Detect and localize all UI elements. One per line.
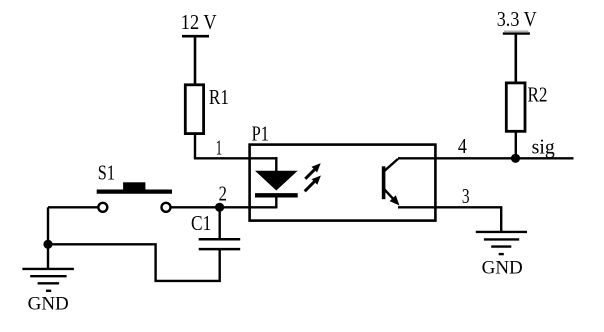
junction node 2	[215, 203, 224, 212]
phototransistor emitter	[385, 190, 400, 206]
svg-text:P1: P1	[252, 122, 269, 146]
phototransistor collector	[385, 159, 399, 171]
wire pin 3	[398, 207, 501, 232]
LED cathode bar	[255, 193, 298, 197]
svg-text:1: 1	[216, 135, 223, 159]
wire node2 to C1	[218, 207, 220, 239]
gray underline 3.3V	[504, 30, 528, 32]
svg-text:C1: C1	[191, 211, 211, 235]
svg-text:3.3 V: 3.3 V	[497, 7, 537, 31]
junction sig node	[511, 154, 520, 163]
wire pin 4 / sig net	[398, 157, 574, 159]
ground right	[476, 232, 527, 254]
power symbol 3.3V bar	[503, 32, 530, 34]
wire 12V to R1	[194, 36, 197, 86]
svg-text:sig: sig	[532, 134, 556, 158]
wire loop to C1 bottom	[48, 244, 220, 281]
svg-text:2: 2	[219, 182, 227, 206]
svg-text:12 V: 12 V	[181, 10, 217, 34]
wire switch to node 2	[171, 206, 277, 208]
light arrow upper	[305, 163, 320, 179]
wire left vertical to ground	[47, 207, 49, 269]
power symbol 12V bar	[182, 35, 209, 38]
wire left to switch	[48, 206, 98, 208]
switch S1 bar	[97, 190, 172, 194]
wire R2 to sig	[515, 131, 517, 158]
svg-text:3: 3	[462, 184, 470, 208]
svg-text:4: 4	[458, 134, 467, 158]
svg-text:R1: R1	[209, 85, 229, 109]
LED anode wire	[275, 157, 277, 172]
wire 3.3V to R2	[514, 34, 517, 84]
junction left	[43, 240, 52, 249]
resistor R2	[506, 83, 525, 131]
resistor R1	[185, 85, 203, 134]
svg-text:GND: GND	[482, 258, 523, 279]
switch S1 button	[123, 182, 145, 189]
capacitor C1	[199, 239, 241, 249]
LED triangle	[255, 171, 298, 191]
phototransistor base bar	[382, 166, 386, 199]
wire R1 to pin 1	[195, 134, 277, 159]
LED cathode wire	[275, 195, 277, 208]
svg-text:R2: R2	[528, 83, 548, 107]
svg-text:S1: S1	[98, 161, 115, 185]
switch S1 terminal left	[98, 203, 107, 212]
svg-text:GND: GND	[28, 294, 69, 315]
light arrow lower	[305, 176, 321, 192]
op-to-coupler U box P1	[250, 145, 436, 221]
ground left	[22, 269, 74, 291]
switch S1 terminal right	[162, 203, 171, 212]
